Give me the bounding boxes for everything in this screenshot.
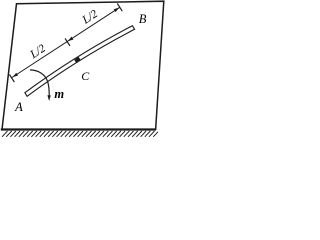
svg-text:B: B	[139, 12, 147, 26]
svg-text:m: m	[54, 87, 64, 101]
svg-text:C: C	[81, 69, 90, 83]
svg-text:A: A	[14, 100, 23, 114]
